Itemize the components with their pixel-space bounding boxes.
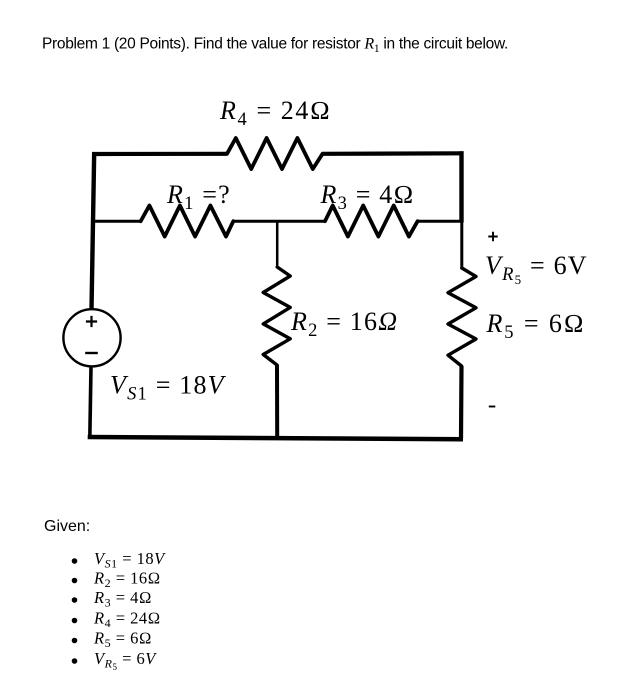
resistor R1	[141, 206, 234, 237]
resistor R3	[325, 206, 418, 237]
resistor R4	[227, 138, 323, 169]
bullet 4	[72, 618, 78, 624]
wire middle vertical lower	[275, 365, 279, 439]
svg-text:VR5 = 6V: VR5 = 6V	[485, 251, 588, 287]
wire top-right segment	[323, 151, 464, 156]
svg-text:Problem 1 (20 Points). Find th: Problem 1 (20 Points). Find the value fo…	[42, 36, 508, 56]
svg-text:R3 = 4Ω: R3 = 4Ω	[93, 588, 152, 610]
minus sign VR5 polarity	[489, 406, 496, 408]
bullet 6	[72, 658, 78, 664]
svg-text:R4 = 24Ω: R4 = 24Ω	[93, 609, 161, 631]
svg-text:VS1 = 18V: VS1 = 18V	[110, 371, 227, 405]
plus sign inside source	[86, 316, 97, 327]
svg-text:VS1 = 18V: VS1 = 18V	[94, 549, 166, 571]
svg-text:R4 = 24Ω: R4 = 24Ω	[219, 96, 332, 130]
svg-text:Given:: Given:	[44, 518, 90, 535]
wire bottom	[88, 437, 463, 439]
bullet 1	[72, 558, 78, 564]
bullet 2	[72, 578, 78, 584]
bullet 3	[72, 597, 78, 603]
voltage source VS1	[63, 309, 120, 366]
svg-text:R5 = 6Ω: R5 = 6Ω	[93, 629, 152, 651]
wire right vertical upper	[459, 151, 463, 222]
svg-text:R2 = 16Ω: R2 = 16Ω	[290, 307, 398, 341]
wire middle vertical upper	[276, 221, 279, 267]
svg-text:VR5 = 6V: VR5 = 6V	[94, 649, 157, 672]
wire middle-center segment	[233, 220, 325, 223]
wire left vertical upper	[92, 152, 95, 310]
plus sign VR5 polarity	[488, 232, 497, 241]
wire middle-left segment	[92, 220, 141, 223]
resistor R5	[448, 268, 476, 366]
svg-text:R2 = 16Ω: R2 = 16Ω	[93, 569, 161, 591]
wire middle-right segment	[418, 220, 462, 223]
minus sign inside source	[85, 352, 98, 354]
wire left vertical lower	[90, 366, 91, 439]
svg-text:R1 =?: R1 =?	[166, 180, 231, 214]
svg-text:R5 = 6Ω: R5 = 6Ω	[486, 309, 586, 343]
wire right vertical lower	[459, 366, 464, 439]
resistor R2	[263, 267, 290, 365]
wire top-left segment	[92, 152, 227, 156]
wire right vertical mid	[460, 220, 463, 269]
bullet 5	[72, 638, 78, 644]
